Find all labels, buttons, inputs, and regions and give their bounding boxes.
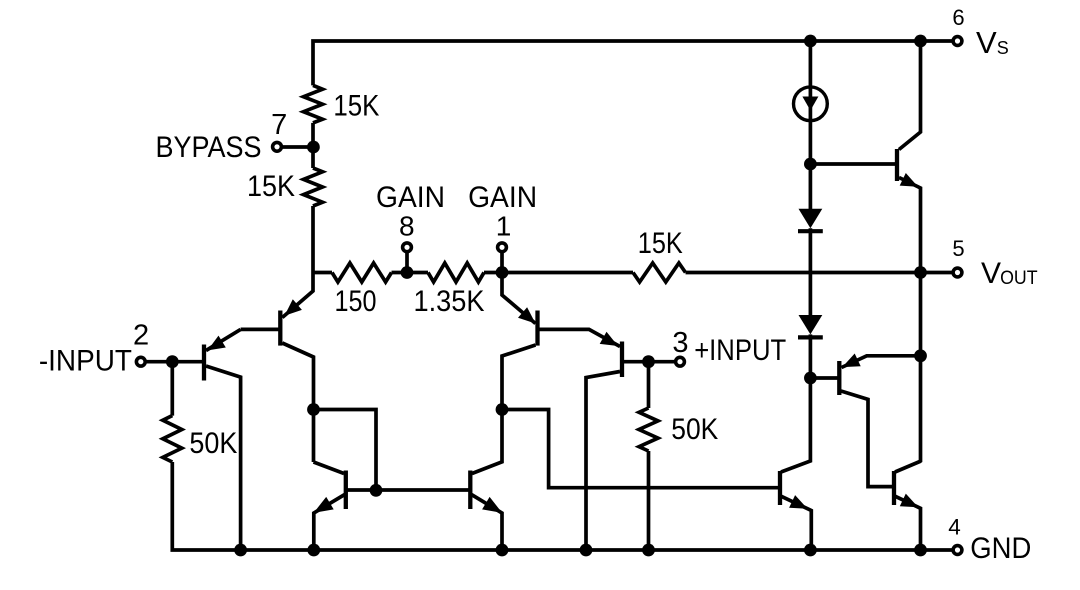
svg-text:4: 4 bbox=[948, 515, 961, 540]
svg-text:3: 3 bbox=[672, 327, 688, 359]
svg-text:5: 5 bbox=[952, 236, 964, 261]
svg-text:2: 2 bbox=[133, 320, 149, 352]
svg-text:7: 7 bbox=[271, 109, 287, 141]
svg-text:GND: GND bbox=[970, 532, 1031, 565]
svg-text:V: V bbox=[976, 25, 997, 60]
svg-text:8: 8 bbox=[399, 211, 415, 242]
svg-text:-INPUT: -INPUT bbox=[39, 344, 132, 377]
svg-text:50K: 50K bbox=[189, 427, 237, 460]
svg-text:1: 1 bbox=[496, 211, 512, 242]
svg-text:GAIN: GAIN bbox=[468, 181, 537, 214]
svg-text:15K: 15K bbox=[247, 170, 295, 203]
svg-text:150: 150 bbox=[335, 285, 377, 318]
svg-text:50K: 50K bbox=[671, 413, 718, 446]
svg-text:+INPUT: +INPUT bbox=[694, 334, 786, 367]
svg-text:15K: 15K bbox=[333, 89, 379, 122]
svg-text:15K: 15K bbox=[638, 227, 683, 260]
svg-text:S: S bbox=[997, 38, 1009, 58]
svg-text:GAIN: GAIN bbox=[376, 181, 445, 214]
svg-text:V: V bbox=[981, 257, 1001, 290]
svg-text:6: 6 bbox=[952, 5, 964, 30]
svg-text:OUT: OUT bbox=[1000, 268, 1038, 289]
svg-text:BYPASS: BYPASS bbox=[156, 131, 262, 164]
svg-text:1.35K: 1.35K bbox=[414, 285, 485, 318]
